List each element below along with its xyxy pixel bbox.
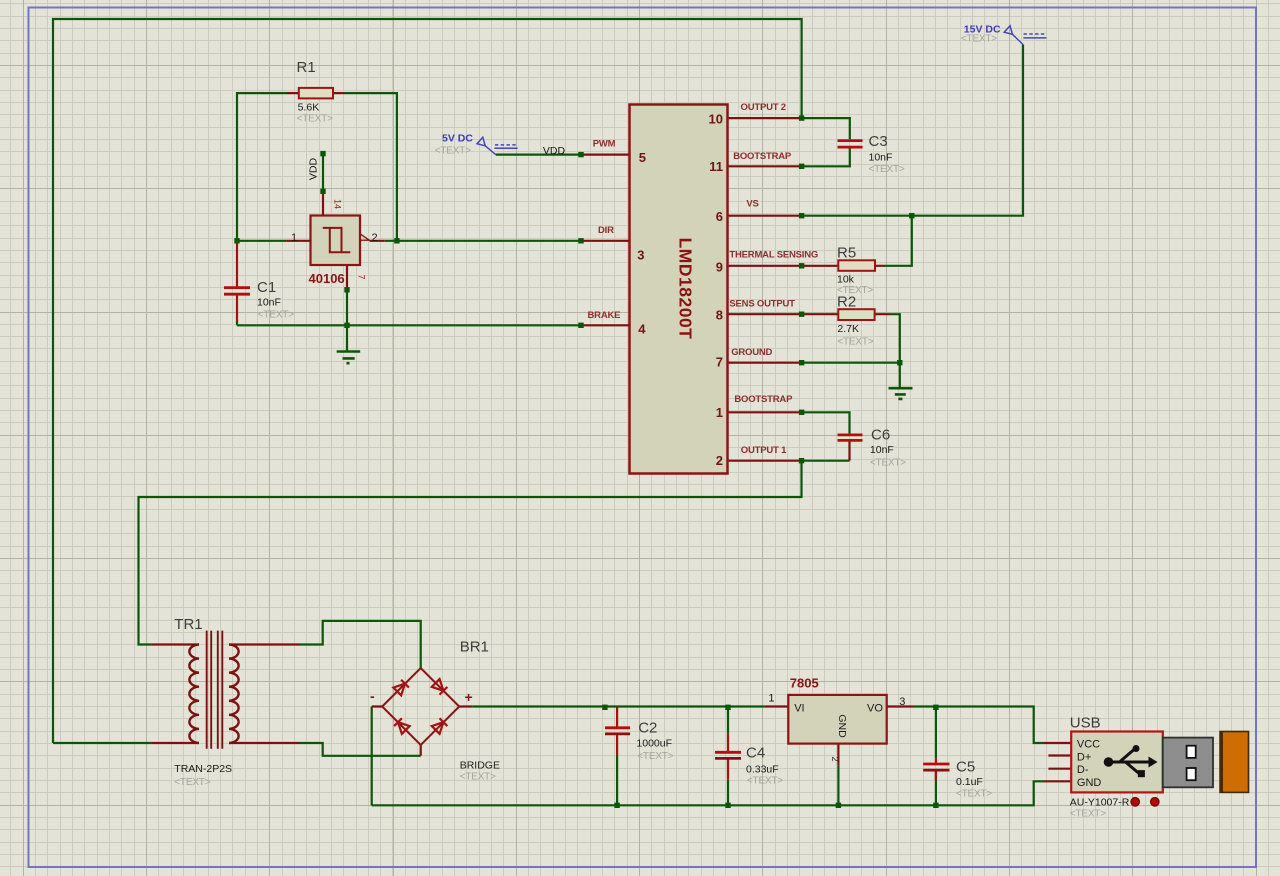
svg-text:VO: VO bbox=[867, 703, 883, 715]
svg-text:<TEXT>: <TEXT> bbox=[747, 775, 783, 786]
svg-text:1: 1 bbox=[291, 232, 297, 244]
svg-text:<TEXT>: <TEXT> bbox=[297, 114, 333, 125]
svg-text:OUTPUT 1: OUTPUT 1 bbox=[741, 445, 787, 456]
svg-text:10nF: 10nF bbox=[869, 152, 893, 164]
svg-text:BRIDGE: BRIDGE bbox=[460, 759, 500, 771]
svg-text:2.7K: 2.7K bbox=[837, 323, 859, 335]
svg-text:4: 4 bbox=[638, 322, 646, 337]
svg-text:7: 7 bbox=[716, 355, 723, 370]
svg-text:11: 11 bbox=[709, 159, 723, 174]
svg-text:LMD18200T: LMD18200T bbox=[676, 238, 696, 340]
svg-text:R5: R5 bbox=[837, 245, 856, 262]
svg-text:BRAKE: BRAKE bbox=[588, 310, 621, 321]
svg-text:<TEXT>: <TEXT> bbox=[870, 457, 906, 468]
svg-text:<TEXT>: <TEXT> bbox=[460, 771, 496, 782]
svg-text:VDD: VDD bbox=[543, 145, 566, 157]
svg-text:VI: VI bbox=[794, 703, 804, 715]
svg-text:10nF: 10nF bbox=[870, 444, 894, 456]
svg-text:40106: 40106 bbox=[309, 271, 345, 286]
svg-text:6: 6 bbox=[716, 209, 723, 224]
svg-text:BOOTSTRAP: BOOTSTRAP bbox=[733, 151, 792, 162]
svg-text:1: 1 bbox=[716, 405, 723, 420]
svg-text:<TEXT>: <TEXT> bbox=[435, 146, 471, 157]
svg-text:0.1uF: 0.1uF bbox=[956, 776, 983, 788]
svg-text:VCC: VCC bbox=[1077, 739, 1100, 751]
svg-text:0.33uF: 0.33uF bbox=[746, 764, 779, 776]
svg-text:OUTPUT 2: OUTPUT 2 bbox=[741, 102, 786, 113]
svg-text:<TEXT>: <TEXT> bbox=[174, 777, 210, 788]
svg-text:BR1: BR1 bbox=[460, 639, 489, 656]
svg-text:SENS OUTPUT: SENS OUTPUT bbox=[729, 298, 795, 309]
svg-text:<TEXT>: <TEXT> bbox=[637, 751, 673, 762]
svg-text:<TEXT>: <TEXT> bbox=[837, 337, 873, 348]
svg-text:5: 5 bbox=[639, 150, 646, 165]
svg-text:<TEXT>: <TEXT> bbox=[1070, 809, 1106, 820]
svg-text:+: + bbox=[465, 689, 473, 705]
svg-text:C1: C1 bbox=[257, 279, 276, 296]
svg-text:R1: R1 bbox=[297, 59, 316, 76]
svg-text:AU-Y1007-R: AU-Y1007-R bbox=[1070, 797, 1130, 809]
svg-text:DIR: DIR bbox=[598, 225, 614, 236]
svg-text:9: 9 bbox=[716, 260, 723, 275]
svg-text:D+: D+ bbox=[1077, 752, 1091, 764]
svg-text:7805: 7805 bbox=[790, 675, 819, 690]
svg-text:R2: R2 bbox=[837, 294, 856, 311]
svg-text:2: 2 bbox=[372, 232, 378, 244]
svg-text:TR1: TR1 bbox=[174, 616, 202, 633]
svg-text:10k: 10k bbox=[837, 274, 855, 286]
svg-text:C5: C5 bbox=[956, 759, 975, 776]
svg-text:14: 14 bbox=[333, 199, 343, 209]
svg-text:VS: VS bbox=[746, 199, 758, 210]
svg-text:GND: GND bbox=[1077, 777, 1102, 789]
svg-text:C6: C6 bbox=[871, 427, 890, 444]
svg-text:2: 2 bbox=[716, 453, 723, 468]
svg-text:2: 2 bbox=[829, 756, 840, 761]
svg-text:10nF: 10nF bbox=[257, 297, 281, 309]
svg-text:5V DC: 5V DC bbox=[442, 133, 473, 145]
svg-text:3: 3 bbox=[637, 248, 644, 263]
svg-text:GND: GND bbox=[836, 714, 848, 738]
svg-text:1000uF: 1000uF bbox=[636, 738, 672, 750]
svg-text:7: 7 bbox=[357, 274, 367, 279]
svg-text:5.6K: 5.6K bbox=[298, 102, 320, 114]
svg-text:D-: D- bbox=[1077, 764, 1089, 776]
svg-text:1: 1 bbox=[768, 693, 774, 705]
svg-text:C3: C3 bbox=[869, 133, 888, 150]
svg-text:TRAN-2P2S: TRAN-2P2S bbox=[174, 763, 232, 775]
svg-text:VDD: VDD bbox=[308, 157, 320, 180]
svg-text:<TEXT>: <TEXT> bbox=[956, 789, 992, 800]
svg-text:-: - bbox=[370, 688, 375, 704]
svg-text:C2: C2 bbox=[638, 719, 657, 736]
svg-text:THERMAL SENSING: THERMAL SENSING bbox=[729, 250, 818, 261]
svg-text:10: 10 bbox=[709, 111, 723, 126]
svg-text:BOOTSTRAP: BOOTSTRAP bbox=[734, 394, 793, 405]
svg-text:3: 3 bbox=[899, 696, 905, 708]
svg-text:<TEXT>: <TEXT> bbox=[258, 310, 294, 321]
svg-text:C4: C4 bbox=[746, 744, 765, 761]
svg-text:<TEXT>: <TEXT> bbox=[869, 164, 905, 175]
svg-text:PWM: PWM bbox=[593, 139, 616, 150]
svg-text:8: 8 bbox=[716, 308, 723, 323]
svg-text:USB: USB bbox=[1070, 714, 1101, 731]
svg-text:<TEXT>: <TEXT> bbox=[961, 34, 997, 45]
svg-text:GROUND: GROUND bbox=[731, 347, 772, 358]
